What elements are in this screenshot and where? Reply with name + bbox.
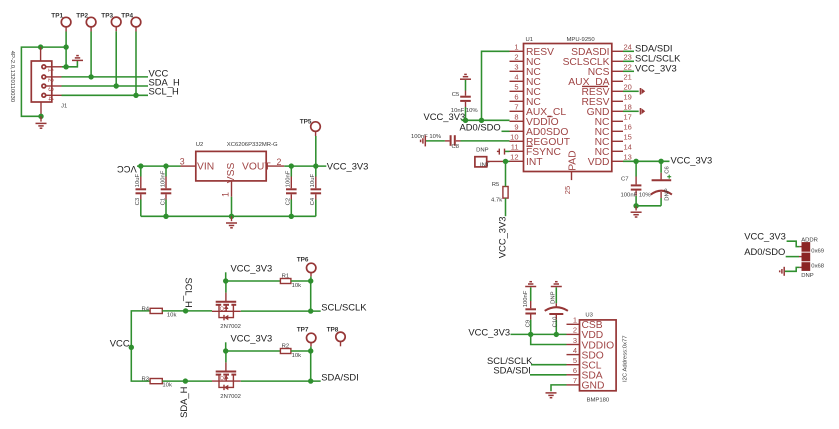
svg-text:100nF: 100nF xyxy=(523,290,529,307)
resistor R2 xyxy=(280,343,301,359)
pin 22 NCS xyxy=(588,63,632,79)
svg-text:VCC_3V3: VCC_3V3 xyxy=(671,155,713,166)
svg-text:2: 2 xyxy=(47,78,56,82)
wire pin24 to label xyxy=(623,50,634,52)
svg-text:TP5: TP5 xyxy=(300,118,312,125)
test point TP8 xyxy=(327,327,346,347)
pin 10 REGOUT xyxy=(510,133,571,149)
pin 6 NC xyxy=(510,93,542,109)
svg-text:10k: 10k xyxy=(292,353,302,359)
wire R3 to Q2 gate xyxy=(162,380,212,382)
wire pin18 stub xyxy=(623,110,639,112)
wire R1 to TP6 node xyxy=(291,280,311,282)
svg-text:C7: C7 xyxy=(621,176,629,182)
svg-text:10k: 10k xyxy=(167,312,177,318)
svg-text:C8: C8 xyxy=(452,144,460,150)
pin 12 INT xyxy=(510,153,544,169)
svg-text:5: 5 xyxy=(514,83,518,92)
pin 4 NC xyxy=(510,73,542,89)
SECTION: regulator U2 xyxy=(117,118,369,227)
pin 3 stub of J1 xyxy=(46,85,61,87)
node junction C10 bottom xyxy=(554,332,559,337)
pin 11 FSYNC xyxy=(510,143,562,159)
label VCC (rotated 180) xyxy=(117,164,137,175)
node junction TP6 xyxy=(308,278,313,283)
svg-text:SCL_H: SCL_H xyxy=(183,278,194,308)
wire pin22 to label xyxy=(623,70,634,72)
pin 13 VDD xyxy=(588,153,632,169)
wire TP3 to SDA_H row xyxy=(115,31,117,86)
node junction C4/TP5 xyxy=(313,163,318,168)
svg-text:2: 2 xyxy=(514,53,518,62)
pin 21 AUX_DA xyxy=(568,73,632,89)
wire INT node to R5 xyxy=(505,161,507,186)
svg-text:7: 7 xyxy=(573,376,577,385)
node junction VSS bottom xyxy=(229,214,234,219)
pin 19 RESV xyxy=(581,93,631,109)
svg-text:1: 1 xyxy=(573,316,577,325)
ground (left) at ADDR jumper xyxy=(780,267,785,276)
wire AD0/SDO to ADDR jumper xyxy=(786,256,802,258)
svg-text:4: 4 xyxy=(514,73,518,82)
label VCC xyxy=(110,337,130,348)
test point TP7 xyxy=(297,326,316,346)
svg-text:VCC: VCC xyxy=(117,164,137,175)
pin 3 of U2 xyxy=(180,157,196,167)
label SDA/SDI (BMP) xyxy=(493,365,531,376)
svg-text:MPU-9250: MPU-9250 xyxy=(567,37,596,43)
label SCL/SCLK xyxy=(321,301,367,312)
svg-text:15: 15 xyxy=(624,133,632,142)
ground (up) above C9 xyxy=(525,282,536,287)
svg-text:SCL_H: SCL_H xyxy=(149,86,179,97)
svg-text:10k: 10k xyxy=(162,383,172,389)
svg-text:6: 6 xyxy=(514,93,518,102)
svg-text:INT: INT xyxy=(480,162,490,168)
node junction SDA out xyxy=(308,378,313,383)
label VCC_3V3 (vertical, below R5) xyxy=(496,216,507,258)
node junction VCC_3V3 lower xyxy=(223,348,228,353)
pin 25 PAD xyxy=(563,150,579,194)
node junction top rail at TP1 xyxy=(63,44,68,49)
svg-text:TP4: TP4 xyxy=(121,12,133,19)
svg-text:13: 13 xyxy=(624,153,632,162)
wire VCC_3V3 to ADDR jumper xyxy=(787,241,802,246)
node junction C6 top xyxy=(658,159,663,164)
wire C6 bottom to C7 bottom xyxy=(636,205,661,207)
label SDA/SDI xyxy=(321,371,359,382)
svg-text:GND: GND xyxy=(582,381,605,392)
svg-text:VCC_3V3: VCC_3V3 xyxy=(635,62,677,73)
svg-text:20: 20 xyxy=(624,83,632,92)
svg-text:C3: C3 xyxy=(135,197,141,205)
svg-text:0x68: 0x68 xyxy=(811,263,824,269)
node junction pin1 xyxy=(63,64,68,69)
node junction C5 bottom xyxy=(463,118,468,123)
wire Q2 drain up xyxy=(225,351,227,362)
svg-text:AD0/SDO: AD0/SDO xyxy=(460,122,501,133)
svg-text:U1: U1 xyxy=(526,37,534,43)
pin 8 VDDIO xyxy=(510,113,559,129)
wire pullup down to SCL row xyxy=(310,281,312,311)
node junction C3 top xyxy=(138,163,143,168)
svg-text:10k: 10k xyxy=(292,283,302,289)
pin 23 SCLSCLK xyxy=(563,53,632,69)
label VCC_3V3 (VDD rail) xyxy=(671,155,713,166)
pin 14 NC xyxy=(595,143,632,159)
svg-text:DNP: DNP xyxy=(476,147,489,153)
label VCC_3V3 lower xyxy=(226,332,273,351)
svg-text:19: 19 xyxy=(624,93,632,102)
wire ground rail xyxy=(141,215,316,217)
capacitor C6 (polarized, DNP) xyxy=(651,161,672,206)
pin 16 NC xyxy=(595,123,632,139)
wire VCC_3V3 to pin8 xyxy=(462,119,510,121)
svg-text:VIN: VIN xyxy=(197,162,214,173)
svg-text:17: 17 xyxy=(624,113,632,122)
test point TP3 xyxy=(101,12,121,31)
node junction SCL_H row TP4 xyxy=(133,93,138,98)
test point TP1 xyxy=(51,12,71,31)
wire Q1 source to label xyxy=(241,310,321,312)
svg-text:VCC_3V3: VCC_3V3 xyxy=(744,230,786,241)
svg-text:100nF: 100nF xyxy=(286,170,292,187)
wire R2 to TP7 node xyxy=(291,350,311,352)
test point TP5 xyxy=(300,118,321,136)
node junction SDA_H row TP3 xyxy=(114,83,119,88)
pin 6 SDA xyxy=(567,366,603,382)
svg-text:11: 11 xyxy=(511,143,519,152)
label SDA_H xyxy=(149,76,180,87)
svg-text:VCC_3V3: VCC_3V3 xyxy=(327,160,369,171)
jumper middle pad xyxy=(802,253,811,262)
pin 18 GND xyxy=(587,103,632,119)
svg-text:C5: C5 xyxy=(452,92,460,98)
pin 5 NC xyxy=(510,83,542,99)
capacitor C4 xyxy=(310,166,321,216)
jumper 0x68 DNP xyxy=(801,262,825,279)
wire INT pad to pin12 xyxy=(487,160,510,162)
capacitor C1 xyxy=(160,166,171,216)
svg-text:PAD: PAD xyxy=(567,150,578,170)
pin 1 stub of J1 xyxy=(46,66,62,68)
pin 3 NC xyxy=(510,63,542,79)
label SCL/SCLK (MPU) xyxy=(635,52,681,63)
svg-text:10uF: 10uF xyxy=(310,173,316,187)
capacitor C7 xyxy=(621,161,652,206)
pin 1 CSB xyxy=(567,316,603,332)
svg-text:C6: C6 xyxy=(665,166,671,174)
label SCL/SCLK (BMP) xyxy=(487,355,533,366)
svg-text:3: 3 xyxy=(514,63,518,72)
wire SDA_H row xyxy=(62,85,149,87)
node junction top rail at J1 stub xyxy=(38,44,43,49)
pin 2 NC xyxy=(510,53,542,69)
ground J1 bottom xyxy=(36,116,47,128)
pin 2 VDD xyxy=(567,326,604,342)
svg-text:DNP: DNP xyxy=(801,273,814,279)
svg-text:8: 8 xyxy=(514,113,518,122)
pin 4 SDO xyxy=(567,346,604,362)
jumper DNP INT pad xyxy=(475,147,490,168)
regulator U2 XC6206P332MR-G xyxy=(196,142,278,183)
svg-text:ADDR: ADDR xyxy=(801,237,818,243)
svg-text:23: 23 xyxy=(624,53,632,62)
wire pin1 RESV to VDDIO net xyxy=(482,51,510,120)
svg-text:XC6206P332MR-G: XC6206P332MR-G xyxy=(227,142,278,148)
wire SDA to pin6 xyxy=(530,374,567,376)
svg-text:INT: INT xyxy=(526,157,543,168)
capacitor C3 xyxy=(135,166,146,216)
pin 1 of U2 (VSS) xyxy=(220,181,231,197)
svg-text:3: 3 xyxy=(573,336,577,345)
pin 4 stub of J1 xyxy=(46,94,61,96)
node junction TP7 xyxy=(308,348,313,353)
svg-text:R5: R5 xyxy=(492,182,500,188)
svg-text:C1: C1 xyxy=(160,198,166,206)
wire TP6 down xyxy=(310,276,312,281)
svg-text:7: 7 xyxy=(514,103,518,112)
svg-text:5: 5 xyxy=(573,356,577,365)
svg-text:TP1: TP1 xyxy=(51,12,63,19)
svg-text:R1: R1 xyxy=(282,273,290,279)
svg-text:C2: C2 xyxy=(286,198,292,206)
node junction C7 bottom xyxy=(633,203,638,208)
wire R5 down xyxy=(505,198,507,216)
svg-text:DNP: DNP xyxy=(665,188,671,201)
ground (up) near J1 pin1 xyxy=(72,56,83,61)
node junction C9 bottom xyxy=(528,332,533,337)
svg-text:C9: C9 xyxy=(525,320,531,328)
pin 9 AD0SDO xyxy=(510,123,569,139)
svg-text:J1: J1 xyxy=(61,104,67,110)
svg-text:TP7: TP7 xyxy=(297,326,309,333)
svg-text:C10: C10 xyxy=(553,316,559,328)
ground (left) at C8 xyxy=(421,135,426,146)
wire top rail xyxy=(21,47,66,116)
wire VDD rail xyxy=(623,160,670,162)
svg-text:VOUT: VOUT xyxy=(242,162,271,173)
node junction C2 bottom xyxy=(289,214,294,219)
svg-text:4: 4 xyxy=(47,97,56,101)
wire GND pin7 xyxy=(551,385,567,391)
svg-text:TP3: TP3 xyxy=(101,12,113,19)
no-connect flag pin20 xyxy=(640,88,645,95)
label VCC_3V3 upper xyxy=(226,262,273,281)
no-connect flag pin18 xyxy=(640,108,645,115)
pin 17 NC xyxy=(595,113,632,129)
pin 2 of U2 xyxy=(266,157,284,167)
wire pullup down to SDA row xyxy=(310,351,312,381)
capacitor C2 xyxy=(286,166,297,216)
svg-text:10: 10 xyxy=(510,133,518,142)
capacitor C10 (polarized, DNP) xyxy=(545,287,568,334)
wire TP2 to VCC row xyxy=(90,32,92,77)
svg-text:R4: R4 xyxy=(142,306,150,312)
wire VCC_3V3 rail to R2 xyxy=(226,350,281,352)
wire VCC vertical xyxy=(131,311,150,381)
node junction SCL out xyxy=(308,308,313,313)
wire SCL to pin5 xyxy=(531,364,567,366)
SECTION: MPU-9250 xyxy=(411,37,712,258)
test point TP4 xyxy=(121,12,141,31)
IC U3 BMP180 body xyxy=(580,313,629,404)
wire AD0/SDO to pin9 xyxy=(502,130,510,132)
transistor Q2 2N7002 xyxy=(212,362,241,400)
svg-text:4.7k: 4.7k xyxy=(491,198,502,204)
svg-text:VCC_3V3: VCC_3V3 xyxy=(231,262,273,273)
label SDA/SDI (MPU) xyxy=(635,42,673,53)
svg-text:SCL/SCLK: SCL/SCLK xyxy=(321,301,367,312)
svg-text:SDA_H: SDA_H xyxy=(178,387,189,418)
label VCC_3V3 output xyxy=(327,160,369,171)
ground regulator xyxy=(226,216,237,228)
svg-text:100nF 10%: 100nF 10% xyxy=(621,193,652,199)
svg-text:R3: R3 xyxy=(142,377,150,383)
pin 24 SDASDI xyxy=(571,43,632,59)
label SCL_H xyxy=(149,86,179,97)
svg-text:VCC: VCC xyxy=(110,337,130,348)
svg-text:1: 1 xyxy=(514,43,518,52)
test point TP6 xyxy=(297,256,316,276)
label VCC_3V3 (ADDR) xyxy=(744,230,786,241)
transistor Q1 2N7002 xyxy=(212,293,241,331)
resistor R3 xyxy=(142,377,172,389)
svg-text:21: 21 xyxy=(624,73,632,82)
pin 2 stub of J1 xyxy=(46,76,61,78)
svg-text:SDA/SDI: SDA/SDI xyxy=(493,365,531,376)
wire ground to ADDR jumper xyxy=(785,267,802,271)
resistor R1 xyxy=(280,273,301,289)
label AD0/SDO xyxy=(460,122,501,133)
capacitor C8 xyxy=(411,134,510,150)
svg-text:TP6: TP6 xyxy=(297,256,309,263)
label SCL_H (vertical) xyxy=(183,278,194,308)
node junction INT xyxy=(503,159,508,164)
svg-text:2N7002: 2N7002 xyxy=(220,394,241,400)
svg-text:DNP: DNP xyxy=(551,291,557,304)
svg-text:2N7002: 2N7002 xyxy=(220,324,241,330)
svg-text:1: 1 xyxy=(47,68,56,72)
svg-text:SDA/SDI: SDA/SDI xyxy=(321,371,359,382)
svg-text:VCC_3V3: VCC_3V3 xyxy=(496,216,507,258)
svg-text:C4: C4 xyxy=(310,197,316,205)
jumper ADDR 0x69 xyxy=(801,237,824,254)
svg-text:VSS: VSS xyxy=(226,162,237,183)
wire VCC_3V3 output rail xyxy=(284,165,326,167)
SECTION: level shifters xyxy=(110,256,367,418)
test point TP2 xyxy=(76,12,96,31)
wire VCC_3V3 rail to R1 xyxy=(226,280,281,282)
node junction VCC row TP2 xyxy=(88,74,93,79)
pin 7 AUX_CL xyxy=(510,103,567,119)
node junction C7 top xyxy=(633,159,638,164)
SECTION: ADDR jumpers xyxy=(744,230,825,279)
svg-text:VDD: VDD xyxy=(588,157,610,168)
svg-text:Q1: Q1 xyxy=(220,306,227,312)
label VCC xyxy=(149,67,169,78)
svg-text:0x69: 0x69 xyxy=(811,249,824,255)
svg-text:TP2: TP2 xyxy=(76,12,88,19)
svg-text:18: 18 xyxy=(624,103,632,112)
svg-text:BMP180: BMP180 xyxy=(587,398,610,404)
wire pin20 stub xyxy=(623,90,639,92)
svg-text:3: 3 xyxy=(180,157,185,167)
svg-text:U3: U3 xyxy=(585,313,593,319)
capacitor C5 xyxy=(451,80,479,120)
svg-text:100nF: 100nF xyxy=(160,170,166,187)
svg-text:100nF 10%: 100nF 10% xyxy=(411,134,442,140)
ground below C7 xyxy=(631,206,642,217)
svg-text:2: 2 xyxy=(277,157,282,167)
node junction C1 bottom xyxy=(163,214,168,219)
wire Q1 drain up xyxy=(225,281,227,293)
label SDA_H (vertical) xyxy=(178,387,189,418)
svg-text:2: 2 xyxy=(573,326,577,335)
svg-text:R2: R2 xyxy=(282,343,290,349)
svg-text:I2C Address:0x77: I2C Address:0x77 xyxy=(623,336,629,383)
label VCC_3V3 (MPU left) xyxy=(424,111,466,122)
svg-text:4P-2.0,1320110030: 4P-2.0,1320110030 xyxy=(9,51,15,103)
node junction RESV drop xyxy=(479,118,484,123)
svg-text:10uF: 10uF xyxy=(135,173,141,187)
wire Q2 source to label xyxy=(241,380,321,382)
IC U1 MPU-9250 body xyxy=(524,37,612,172)
svg-text:25: 25 xyxy=(563,186,572,194)
svg-text:16: 16 xyxy=(624,123,632,132)
svg-text:3: 3 xyxy=(47,87,56,91)
node junction VCC xyxy=(129,345,134,350)
SECTION: J1 connector xyxy=(9,12,180,128)
wire VSS down xyxy=(231,197,233,217)
svg-text:VCC_3V3: VCC_3V3 xyxy=(468,326,510,337)
svg-text:AD0/SDO: AD0/SDO xyxy=(744,246,785,257)
node junction VCC_3V3 upper xyxy=(223,278,228,283)
connector J1 xyxy=(9,47,67,116)
wire SCL_H row xyxy=(62,94,149,96)
wire TP4 to SCL_H row xyxy=(135,32,137,96)
svg-text:6: 6 xyxy=(573,366,577,375)
svg-text:22: 22 xyxy=(624,63,632,72)
wire VCC input rail xyxy=(137,165,181,167)
svg-text:4: 4 xyxy=(573,346,577,355)
svg-text:U2: U2 xyxy=(196,142,204,148)
wire pin1 to ground xyxy=(62,61,77,67)
node junction J1 bottom xyxy=(38,114,43,119)
svg-text:24: 24 xyxy=(624,43,632,52)
pin 15 NC xyxy=(595,133,632,149)
pin 1 RESV xyxy=(510,43,555,59)
SECTION: BMP180 xyxy=(468,282,628,404)
pin 3 VDDIO xyxy=(567,336,615,352)
node junction SDA_H xyxy=(183,378,188,383)
wire VCC row xyxy=(62,76,149,78)
wire TP7 down xyxy=(310,346,312,351)
wire R4 to Q1 gate xyxy=(162,310,212,312)
wire VCC_3V3 to VDD xyxy=(511,333,567,335)
jumper FSYNC pads xyxy=(497,149,510,155)
ground (up) above C5 xyxy=(460,74,471,79)
svg-text:12: 12 xyxy=(510,153,518,162)
node junction SCL_H xyxy=(183,308,188,313)
svg-text:1: 1 xyxy=(220,192,230,197)
resistor R5 xyxy=(491,182,508,203)
pin 7 GND xyxy=(567,376,605,392)
pin 5 SCL xyxy=(567,356,602,372)
node junction C2 top xyxy=(289,163,294,168)
node junction C1 top xyxy=(163,163,168,168)
svg-text:10nF 10%: 10nF 10% xyxy=(451,108,479,114)
